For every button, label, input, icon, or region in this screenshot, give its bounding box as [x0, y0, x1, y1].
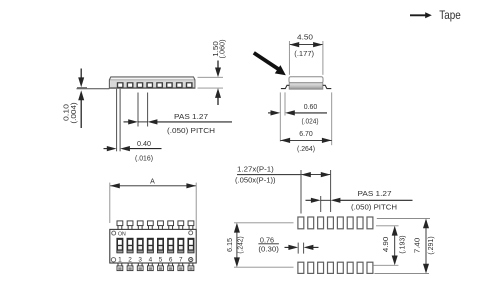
dimension 0.40 arrows: [104, 146, 162, 151]
dimension 6.70 arrows: [280, 138, 331, 143]
footprint top pad row: [298, 217, 373, 229]
dimension 0.60 arrows: [268, 110, 327, 115]
svg-text:A: A: [150, 178, 155, 185]
dimension A extension lines: [110, 183, 196, 229]
svg-text:(.242): (.242): [237, 236, 244, 253]
dimension 7.40 arrows: [423, 219, 429, 274]
side view pin edges: [117, 89, 121, 152]
dimension A line and arrows: [110, 183, 196, 188]
svg-text:(.004): (.004): [71, 102, 78, 123]
end view left lead: [281, 85, 290, 88]
body bottom tick: [77, 87, 87, 89]
dimension PAS 1.27 pitch (side view): [124, 119, 233, 124]
svg-text:1.27x(P-1): 1.27x(P-1): [237, 167, 274, 174]
svg-text:6.15: 6.15: [227, 238, 234, 252]
svg-text:2: 2: [128, 256, 132, 263]
dimension 1.50 extension lines: [198, 77, 224, 88]
svg-text:4: 4: [149, 256, 153, 263]
dimension 6.15 arrows: [234, 223, 240, 267]
svg-text:4.90: 4.90: [383, 237, 390, 253]
svg-text:5: 5: [159, 256, 163, 263]
dimension 0.60 extension lines: [280, 92, 285, 141]
dimension 4.50 extension lines: [289, 41, 323, 75]
dimension 1.50 arrows: [215, 61, 221, 106]
front view bottom pins: [117, 263, 194, 271]
svg-text:(.024): (.024): [302, 119, 319, 126]
front view switches: [116, 238, 194, 254]
svg-text:Tape: Tape: [439, 8, 461, 22]
footprint dimension PAS 1.27 arrows: [306, 198, 413, 203]
svg-text:6: 6: [169, 256, 173, 263]
seating plane line: [77, 88, 110, 90]
svg-text:(.050) PITCH: (.050) PITCH: [351, 204, 397, 211]
front view body: [110, 229, 196, 263]
dimension 0.10 arrows: [78, 69, 84, 129]
footprint extension line pad4 center: [330, 170, 332, 212]
dimension 6.15 extension lines: [234, 223, 294, 267]
footprint extension line pad3 center: [320, 196, 322, 212]
svg-text:1: 1: [118, 256, 122, 263]
dimension 6.70 extension line right: [331, 92, 333, 145]
tape direction arrow: [410, 12, 432, 18]
svg-text:3: 3: [138, 256, 142, 263]
svg-text:(.291): (.291): [428, 236, 435, 254]
footprint dimension 1.27x(P-1) line and arrows: [237, 172, 331, 177]
svg-text:ON: ON: [118, 232, 126, 238]
svg-text:PAS 1.27: PAS 1.27: [358, 191, 392, 198]
dimension 0.76 extension lines: [298, 243, 303, 254]
svg-text:(.050) PITCH: (.050) PITCH: [167, 128, 215, 135]
svg-text:(.264): (.264): [297, 146, 315, 153]
dimension 4.90 arrows: [392, 226, 398, 265]
svg-text:0.10: 0.10: [64, 104, 71, 121]
svg-text:8: 8: [189, 256, 193, 263]
svg-text:(0.30): (0.30): [258, 247, 279, 254]
svg-text:6.70: 6.70: [299, 131, 313, 138]
end view body: [289, 83, 323, 89]
front view top pins: [117, 221, 194, 230]
svg-text:0.76: 0.76: [260, 237, 274, 244]
svg-text:(.050x(P-1)): (.050x(P-1)): [235, 178, 276, 185]
pitch extension lines: [138, 93, 148, 127]
end view right lead: [323, 85, 332, 88]
front view corner circles: [111, 231, 193, 262]
svg-text:(.177): (.177): [294, 51, 314, 58]
dimension 4.50 arrows: [289, 42, 323, 47]
svg-text:(.193): (.193): [400, 235, 407, 253]
svg-text:(.016): (.016): [135, 156, 153, 163]
svg-text:7.40: 7.40: [414, 238, 421, 254]
svg-text:(.060): (.060): [220, 40, 227, 59]
svg-text:PAS 1.27: PAS 1.27: [174, 114, 208, 121]
side view body: [109, 77, 194, 88]
svg-text:0.60: 0.60: [304, 104, 318, 111]
dimension 4.90 extension lines: [374, 226, 399, 265]
pointer arrow: [254, 53, 286, 75]
footprint bottom pad row: [298, 262, 373, 273]
switch numbers: [118, 256, 193, 263]
dimension 0.76 arrows: [285, 245, 319, 250]
dimension 0.76 underline: [258, 243, 279, 245]
end view actuator: [289, 77, 323, 83]
svg-text:7: 7: [179, 256, 183, 263]
dimension 7.40 extension lines: [374, 219, 430, 274]
footprint extension line pad1 center: [300, 170, 302, 214]
svg-text:4.50: 4.50: [297, 35, 313, 42]
side view actuator slots: [117, 82, 193, 88]
svg-text:0.40: 0.40: [137, 141, 151, 148]
